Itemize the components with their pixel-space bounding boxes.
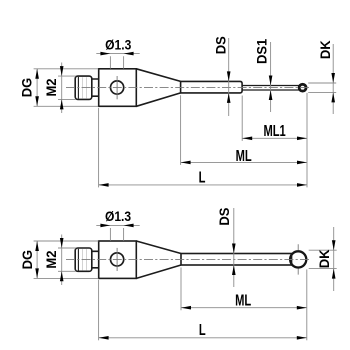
dimension Ø1.3 top: dim line <box>96 53 139 55</box>
thread chamfer line bottom <box>77 249 79 271</box>
svg-text:Ø1.3: Ø1.3 <box>105 37 131 53</box>
extension line ball right shared <box>306 93 308 187</box>
extension line ball right bottom <box>306 269 308 340</box>
dimension ML top: dim line <box>181 161 307 163</box>
thread M2 body bottom <box>75 248 92 271</box>
dimension DK top: dim line <box>332 44 334 114</box>
stem DS <box>181 81 243 93</box>
svg-text:DG: DG <box>20 78 35 97</box>
ball DK top <box>299 84 306 91</box>
dimension L top: dim line <box>99 184 307 186</box>
dimension DS top: arrows <box>227 71 231 81</box>
dimension DG bottom: extension lines <box>34 241 99 278</box>
hole crosshair vertical bottom <box>116 248 118 271</box>
main body <box>99 69 137 107</box>
dimension Ø1.3 bottom: extension lines <box>110 228 123 241</box>
dimension M2 bottom: dim line <box>61 235 63 286</box>
dimension DS1 top: dim line <box>270 42 272 112</box>
svg-text:DS1: DS1 <box>254 39 269 64</box>
taper cone <box>136 69 180 107</box>
dimension ML top: extension line left <box>180 95 182 165</box>
dimension L bottom: extension line left <box>98 280 100 340</box>
svg-text:ML1: ML1 <box>263 122 286 139</box>
dimension DG top: extension lines <box>34 69 99 107</box>
taper cone bottom <box>136 241 181 278</box>
centerline bottom stylus <box>66 258 311 260</box>
dimension ML1: dim line <box>242 137 307 139</box>
dimension ML1: extension line left <box>241 96 243 141</box>
dimension ML bottom: arrows <box>181 306 191 310</box>
dimension DK bottom: dim line <box>333 227 335 291</box>
dimension DS1 top: arrows <box>269 76 273 86</box>
dimension DK top: arrows <box>331 73 335 83</box>
dimension ML top: arrows <box>181 161 191 165</box>
dimension Ø1.3 bottom: arrows <box>100 224 110 228</box>
dimension M2 bottom: extension lines <box>58 248 76 271</box>
dimension DS bottom: arrows <box>232 244 236 254</box>
dimension ML1: arrows <box>242 137 252 141</box>
dimension L bottom: dim line <box>99 337 307 339</box>
svg-text:DS: DS <box>217 207 232 225</box>
dimension Ø1.3 top: extension lines <box>110 56 123 68</box>
dimension M2 top: extension lines <box>58 76 76 99</box>
svg-text:ML: ML <box>236 147 252 164</box>
dimension L top: extension line left <box>98 108 100 187</box>
stem DS bottom <box>181 254 292 266</box>
dimension ML bottom: dim line <box>181 307 307 309</box>
dimension L top: arrows <box>99 183 109 187</box>
dimension ML bottom: extension line left <box>180 268 182 311</box>
thread M2 body <box>75 76 92 99</box>
svg-text:DK: DK <box>317 249 332 268</box>
svg-text:L: L <box>199 321 206 338</box>
thread texture lines bottom <box>82 249 86 270</box>
ball DK bottom <box>290 251 306 267</box>
main body bottom <box>99 241 137 278</box>
stem DS1 <box>242 86 299 91</box>
dimension DS bottom: dim line <box>233 208 235 287</box>
hole crosshair vertical <box>116 76 118 99</box>
stem end cap at ball bottom <box>291 255 293 265</box>
dimension DG top: dim line <box>36 69 38 107</box>
svg-text:ML: ML <box>235 292 251 309</box>
dimension DG top: arrows <box>35 69 39 79</box>
dimension DK bottom: arrows <box>332 240 336 250</box>
neck groove <box>92 79 99 96</box>
svg-text:DS: DS <box>213 36 228 54</box>
svg-text:M2: M2 <box>44 251 59 269</box>
ball centerline vertical bottom <box>297 244 299 274</box>
dimension M2 bottom: arrows <box>60 238 64 248</box>
dimension M2 top: dim line <box>61 63 63 114</box>
dimension DG bottom: dim line <box>36 241 38 278</box>
dimension DK bottom: extension lines <box>309 250 337 268</box>
neck groove bottom <box>92 251 99 267</box>
hole circle Ø1.3 <box>111 81 124 94</box>
svg-text:Ø1.3: Ø1.3 <box>105 208 131 224</box>
svg-text:DG: DG <box>20 250 35 269</box>
dimension M2 top: arrows <box>60 66 64 76</box>
dimension L bottom: arrows <box>99 336 109 340</box>
dimension DG bottom: arrows <box>35 241 39 251</box>
svg-text:M2: M2 <box>44 78 59 96</box>
thread chamfer line <box>77 77 79 99</box>
svg-text:DK: DK <box>318 40 333 59</box>
hole circle Ø1.3 bottom <box>111 253 124 266</box>
centerline top stylus <box>66 87 311 89</box>
thread texture lines <box>82 77 86 98</box>
dimension Ø1.3 top: arrows <box>100 52 110 56</box>
dimension DS top: dim line <box>228 38 230 116</box>
dimension DK top: extension lines <box>308 83 336 92</box>
svg-text:L: L <box>199 169 206 186</box>
dimension Ø1.3 bottom: dim line <box>96 224 139 226</box>
